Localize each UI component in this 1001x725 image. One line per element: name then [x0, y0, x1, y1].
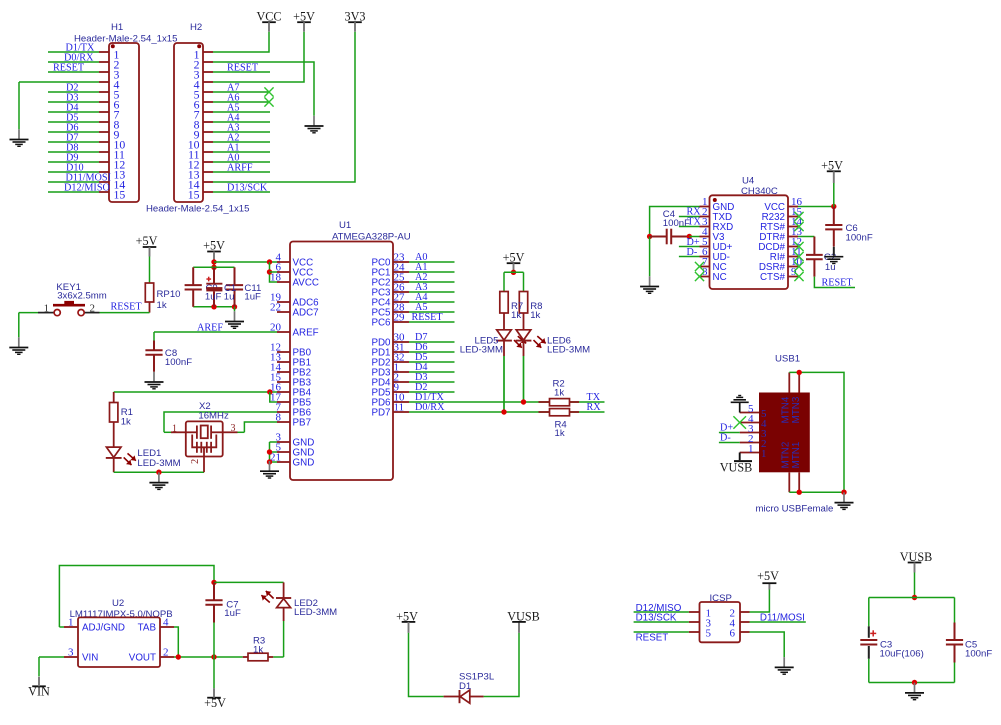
svg-text:+5V: +5V — [204, 696, 226, 710]
svg-text:RESET: RESET — [111, 302, 143, 313]
svg-text:micro USBFemale: micro USBFemale — [756, 503, 834, 514]
svg-text:NC: NC — [713, 272, 727, 283]
svg-text:2: 2 — [90, 303, 96, 315]
svg-text:+5V: +5V — [136, 234, 158, 248]
svg-text:10uF(106): 10uF(106) — [880, 648, 924, 659]
svg-text:U1: U1 — [339, 220, 351, 231]
svg-text:AVCC: AVCC — [293, 278, 320, 289]
svg-text:1k: 1k — [157, 300, 167, 311]
svg-text:D12/MISO: D12/MISO — [64, 183, 110, 194]
svg-text:1k: 1k — [555, 428, 565, 439]
svg-text:ADC7: ADC7 — [293, 308, 319, 319]
svg-text:H2: H2 — [190, 22, 202, 33]
svg-text:D0/RX: D0/RX — [415, 402, 445, 413]
svg-text:TX: TX — [687, 217, 701, 228]
svg-text:29: 29 — [394, 311, 406, 323]
svg-text:LED-3MM: LED-3MM — [137, 458, 180, 469]
svg-text:MTN1: MTN1 — [791, 442, 802, 469]
svg-text:RESET: RESET — [636, 632, 669, 643]
svg-text:1: 1 — [761, 448, 767, 460]
svg-text:VUSB: VUSB — [507, 609, 540, 623]
svg-text:5: 5 — [706, 627, 712, 639]
svg-text:4: 4 — [163, 616, 169, 628]
svg-text:GND: GND — [293, 458, 315, 469]
svg-text:U2: U2 — [112, 598, 124, 609]
svg-text:VUSB: VUSB — [720, 460, 753, 474]
svg-text:1uF: 1uF — [244, 292, 261, 303]
svg-text:RX: RX — [587, 402, 602, 413]
svg-text:3x6x2.5mm: 3x6x2.5mm — [57, 291, 107, 302]
svg-text:+5V: +5V — [203, 239, 225, 253]
svg-text:D1: D1 — [459, 681, 471, 692]
svg-text:100nF: 100nF — [965, 648, 992, 659]
svg-text:1k: 1k — [530, 310, 540, 321]
svg-text:D11/MOSI: D11/MOSI — [760, 613, 805, 624]
svg-text:1: 1 — [748, 443, 754, 455]
svg-text:TAB: TAB — [138, 623, 157, 634]
svg-text:8: 8 — [702, 266, 708, 278]
svg-text:1: 1 — [68, 616, 74, 628]
svg-text:1k: 1k — [511, 310, 521, 321]
svg-text:H1: H1 — [111, 22, 123, 33]
svg-text:1k: 1k — [554, 388, 564, 399]
svg-text:3V3: 3V3 — [345, 9, 366, 23]
svg-text:3: 3 — [68, 646, 74, 658]
svg-text:1k: 1k — [121, 417, 131, 428]
svg-text:LED-3MM: LED-3MM — [547, 345, 590, 356]
svg-text:1: 1 — [172, 424, 177, 435]
svg-text:1k: 1k — [253, 644, 263, 655]
svg-text:2: 2 — [163, 646, 169, 658]
svg-text:RESET: RESET — [53, 63, 85, 74]
svg-text:PD7: PD7 — [371, 408, 390, 419]
svg-text:LED-3MM: LED-3MM — [460, 345, 503, 356]
svg-text:100nF: 100nF — [663, 218, 690, 229]
svg-text:RP10: RP10 — [157, 289, 181, 300]
svg-text:VIN: VIN — [82, 653, 98, 664]
svg-text:U4: U4 — [742, 176, 755, 187]
svg-text:Header-Male-2.54_1x15: Header-Male-2.54_1x15 — [146, 204, 249, 215]
svg-text:USB1: USB1 — [775, 354, 800, 365]
svg-text:+5V: +5V — [821, 158, 843, 172]
svg-text:9: 9 — [791, 266, 797, 278]
svg-text:16MHz: 16MHz — [198, 411, 229, 422]
svg-text:1u: 1u — [224, 292, 235, 303]
svg-text:+5V: +5V — [293, 9, 315, 23]
svg-text:1uF: 1uF — [224, 608, 241, 619]
svg-text:15: 15 — [114, 188, 126, 202]
svg-text:D-: D- — [720, 432, 731, 443]
svg-text:LED-3MM: LED-3MM — [294, 607, 337, 618]
svg-text:3: 3 — [231, 423, 236, 434]
svg-text:RESET: RESET — [412, 312, 444, 323]
svg-text:1: 1 — [44, 303, 50, 315]
svg-text:RESET: RESET — [822, 277, 854, 288]
svg-text:+5V: +5V — [757, 569, 779, 583]
svg-text:100nF: 100nF — [165, 357, 192, 368]
svg-text:6: 6 — [730, 627, 736, 639]
svg-text:15: 15 — [188, 188, 200, 202]
svg-text:100nF: 100nF — [846, 233, 873, 244]
svg-text:PB7: PB7 — [293, 418, 312, 429]
svg-text:MTN3: MTN3 — [791, 396, 802, 423]
svg-text:VIN: VIN — [28, 685, 50, 699]
svg-text:PC6: PC6 — [371, 318, 391, 329]
svg-text:+5V: +5V — [503, 250, 525, 264]
svg-text:MTN4: MTN4 — [780, 396, 791, 423]
svg-text:1uF: 1uF — [205, 292, 222, 303]
svg-text:CTS#: CTS# — [760, 272, 786, 283]
svg-text:ADJ/GND: ADJ/GND — [82, 623, 125, 634]
svg-text:2: 2 — [190, 459, 201, 464]
svg-text:D-: D- — [687, 247, 698, 258]
svg-text:MTN2: MTN2 — [780, 442, 791, 469]
svg-text:22: 22 — [270, 301, 281, 313]
svg-text:D13/SCK: D13/SCK — [636, 613, 677, 624]
svg-text:VOUT: VOUT — [129, 653, 156, 664]
svg-text:VCC: VCC — [256, 9, 281, 23]
svg-text:11: 11 — [394, 401, 405, 413]
svg-text:AREF: AREF — [197, 322, 223, 333]
svg-text:AREF: AREF — [293, 328, 319, 339]
